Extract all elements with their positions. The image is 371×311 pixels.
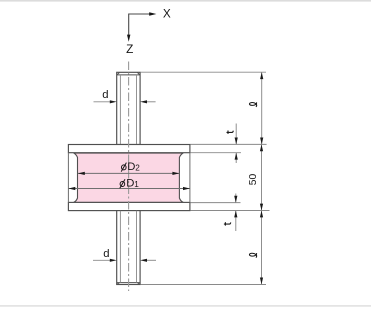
- dimension phiD1: [68, 188, 189, 190]
- dimension d (bottom): [93, 259, 156, 261]
- rubber body (pink): [74, 153, 184, 202]
- svg-text:1: 1: [134, 180, 139, 189]
- left extension line between plates (phiD1): [67, 153, 69, 203]
- svg-text:D: D: [126, 177, 134, 189]
- right extension line between plates (phiD1): [189, 153, 191, 203]
- upper stud thread lines: [119, 75, 121, 144]
- label phiD1: [120, 177, 140, 189]
- lower stud chamfer line: [117, 282, 140, 284]
- svg-text:X: X: [163, 7, 171, 21]
- centerline (dash-dot): [128, 62, 130, 292]
- X axis arrowhead: [149, 12, 156, 15]
- dimension d (top): [94, 101, 156, 103]
- svg-text:Z: Z: [126, 42, 133, 56]
- upper stud chamfer line: [117, 74, 140, 76]
- extension line from top plate top edge: [190, 143, 266, 145]
- dimension phiD2: [78, 172, 179, 174]
- top plate: [68, 145, 189, 153]
- svg-text:2: 2: [135, 163, 140, 172]
- svg-text:D: D: [127, 161, 135, 173]
- bottom plate: [68, 202, 189, 210]
- label t (bottom): [224, 222, 231, 225]
- svg-text:d: d: [102, 89, 108, 101]
- extension line from top of upper stud: [141, 71, 266, 73]
- lower stud: [117, 211, 140, 285]
- dimension ell (top): [261, 72, 263, 144]
- Z axis arrowhead: [127, 35, 130, 42]
- label ell (bottom): [249, 253, 256, 258]
- bottom page border: [0, 305, 371, 307]
- extension line from bottom plate bottom edge: [190, 210, 269, 212]
- dimension t (bottom): [235, 194, 237, 203]
- dimension ell (bottom): [261, 211, 263, 285]
- extension line from bottom of lower stud: [141, 284, 266, 286]
- dimension t (top): [235, 124, 237, 145]
- label t (top): [227, 131, 234, 134]
- dimension 50: [261, 144, 263, 210]
- svg-text:d: d: [103, 248, 109, 260]
- lower stud thread lines: [119, 211, 121, 283]
- top page border: [0, 0, 371, 2]
- coordinate axes X/Z: [129, 14, 151, 37]
- label ell (top): [249, 102, 256, 107]
- upper stud: [117, 72, 140, 144]
- label phiD2: [121, 161, 140, 173]
- extension line from bottom plate top edge: [190, 202, 240, 204]
- svg-text:50: 50: [248, 174, 259, 186]
- extension line from top plate bottom edge: [190, 152, 241, 154]
